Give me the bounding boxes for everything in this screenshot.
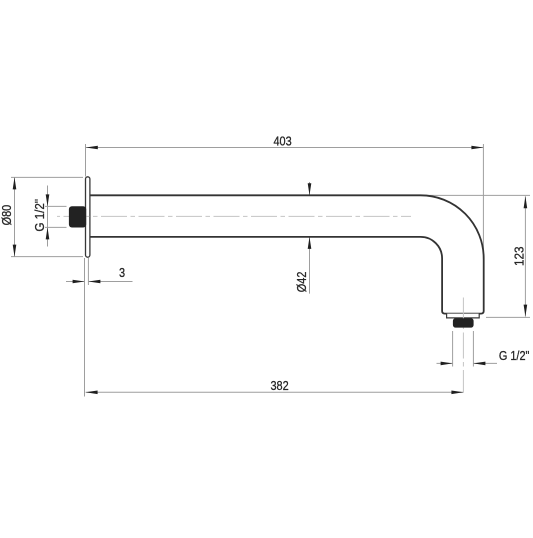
arrow 403 right	[471, 146, 483, 150]
arrow O42 top	[308, 183, 312, 195]
svg-text:382: 382	[270, 378, 289, 393]
wall flange	[86, 177, 90, 257]
outlet thread left extension line	[452, 331, 454, 367]
dimension 123 line	[524, 196, 526, 316]
dimension G1/2 wall line	[47, 186, 49, 247]
arrow G1/2 outlet left	[441, 362, 453, 366]
dimension O80 line	[14, 177, 16, 256]
dimension O42 lower segment	[309, 237, 311, 294]
dimension O80 top extension line	[11, 176, 83, 178]
outlet thread	[453, 318, 474, 327]
dimension O42 upper segment	[309, 182, 311, 195]
vertical centerline	[462, 298, 464, 393]
flange front face extension line	[87, 258, 89, 285]
dimension G1/2 outlet left segment	[437, 362, 453, 364]
wall thread nipple	[69, 206, 86, 227]
arrow 3 left	[73, 280, 85, 284]
svg-text:G 1/2": G 1/2"	[32, 199, 47, 232]
dimension 403 extension line left	[85, 144, 87, 177]
outlet step collar	[447, 314, 480, 318]
arrow O80 bottom	[13, 245, 17, 257]
arrow O80 top	[13, 177, 17, 189]
dimension 3 right line	[88, 281, 132, 283]
arrow 3 right	[88, 280, 100, 284]
arrow O42 bottom	[308, 237, 312, 249]
svg-text:3: 3	[119, 265, 125, 280]
svg-text:Ø42: Ø42	[294, 271, 309, 292]
dimension 3 left line	[66, 281, 85, 283]
arrow 382 right	[451, 391, 463, 395]
svg-text:Ø80: Ø80	[0, 204, 14, 225]
outlet thread right extension line	[472, 331, 474, 367]
dimension 123 top extension line	[412, 194, 530, 196]
dimension G1/2 wall bottom extension line	[45, 226, 67, 228]
dimension O80 bottom extension line	[11, 256, 83, 258]
shower arm tube outline	[90, 195, 484, 313]
svg-text:403: 403	[273, 133, 292, 148]
dimension G1/2 wall top extension line	[45, 205, 67, 207]
arrow 403 left	[86, 146, 98, 150]
arrow 123 top	[524, 196, 528, 208]
dimension 123 bottom extension line	[486, 316, 530, 318]
dimension 403 line	[86, 147, 484, 149]
horizontal centerline	[57, 215, 411, 217]
dimension 382 line	[86, 391, 464, 393]
dimension G1/2 outlet right segment	[473, 362, 497, 364]
arrow 123 bottom	[524, 305, 528, 317]
arrow 382 left	[86, 391, 98, 395]
dimension 403 extension line right	[482, 144, 484, 259]
svg-text:G 1/2": G 1/2"	[499, 348, 530, 363]
arrow G1/2 outlet right	[473, 362, 485, 366]
arrow G1/2 wall top	[46, 194, 50, 206]
wall face extension line down	[84, 258, 86, 397]
svg-text:123: 123	[512, 246, 527, 266]
arrow G1/2 wall bottom	[46, 227, 50, 239]
